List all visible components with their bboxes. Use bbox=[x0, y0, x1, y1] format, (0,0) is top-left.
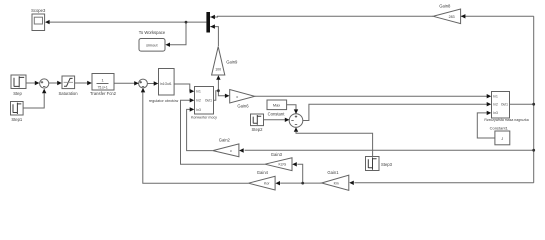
wire saturation to transferfcn bbox=[75, 82, 88, 84]
arrow into konwerter in1 bbox=[190, 89, 195, 93]
gain Gain1 Kin bbox=[322, 175, 349, 190]
arrow into sum2 left bbox=[134, 81, 139, 85]
svg-text:Gain2: Gain2 bbox=[219, 138, 231, 143]
arrow into sum1 left bbox=[35, 81, 40, 85]
constant Max bbox=[267, 100, 287, 110]
wire gain8 input from right bbox=[461, 15, 534, 17]
wire max constant to circle top bbox=[287, 105, 296, 110]
gain Gain3 bbox=[265, 158, 292, 171]
svg-text:283: 283 bbox=[449, 15, 455, 19]
wire circle out to In2 bbox=[303, 104, 488, 120]
wire mux input2 from gain9 bbox=[210, 27, 218, 47]
wire konwerter out1 bracket bbox=[214, 91, 219, 101]
svg-text:Gain6: Gain6 bbox=[237, 103, 249, 108]
svg-text:Step3: Step3 bbox=[381, 162, 393, 167]
svg-text:Gain8: Gain8 bbox=[439, 4, 451, 9]
svg-text:K2/G: K2/G bbox=[279, 163, 287, 167]
svg-text:c: c bbox=[236, 95, 238, 99]
junction dot y150 tee bbox=[532, 149, 535, 152]
wire branch up to gain3 bbox=[297, 164, 302, 183]
arrow into gain8 bbox=[461, 14, 466, 18]
arrow into regulator bbox=[154, 81, 159, 85]
arrow into gain3 bbox=[292, 162, 297, 166]
svg-text:Out1: Out1 bbox=[501, 103, 508, 107]
svg-text:Gain9: Gain9 bbox=[226, 60, 238, 65]
svg-text:simout: simout bbox=[146, 42, 158, 47]
wire gain6 out long to In1 bbox=[255, 95, 488, 97]
transfer fcn fraction bar bbox=[97, 82, 109, 84]
gain Gain9 bbox=[212, 47, 225, 75]
sum sum1 bbox=[40, 79, 49, 88]
step icon Step bbox=[14, 76, 24, 87]
gain Gain8 bbox=[433, 9, 460, 24]
svg-text:In1Out1: In1Out1 bbox=[160, 82, 172, 86]
svg-text:c: c bbox=[230, 149, 232, 153]
svg-text:Gain1: Gain1 bbox=[327, 170, 339, 175]
svg-text:Step2: Step2 bbox=[252, 127, 264, 132]
transfer-fcn Transfer Fcn2 bbox=[92, 74, 114, 91]
sum1 signs bbox=[41, 81, 46, 86]
junction dot workspace branch bbox=[185, 21, 188, 24]
arrow into konwerter in3 bbox=[190, 107, 195, 111]
junction dot gain3 branch bbox=[301, 182, 304, 185]
subsystem regulator obrotow bbox=[159, 69, 175, 96]
wire regulator out to konwerter in1 bbox=[174, 84, 190, 91]
svg-text:In3: In3 bbox=[493, 111, 498, 115]
svg-text:J: J bbox=[501, 136, 503, 141]
step icon Step2 bbox=[253, 115, 261, 125]
svg-text:Transfer Fcn2: Transfer Fcn2 bbox=[90, 91, 117, 96]
svg-text:Rzeczywista masa nagruzka: Rzeczywista masa nagruzka bbox=[484, 118, 528, 122]
arrow into saturation bbox=[57, 81, 62, 85]
arrow into gain6 bbox=[225, 94, 230, 98]
svg-text:Step: Step bbox=[13, 91, 22, 96]
gain Gain2 bbox=[213, 144, 239, 157]
saturation Saturation bbox=[62, 76, 75, 89]
gain Gain4 bbox=[248, 176, 275, 190]
arrow into sum2 bottom bbox=[141, 88, 145, 93]
step icon Step1 bbox=[13, 103, 21, 114]
svg-text:Saturation: Saturation bbox=[58, 91, 78, 96]
svg-text:Scope3: Scope3 bbox=[31, 8, 46, 13]
arrow into sum3 left bbox=[285, 118, 290, 122]
arrow into sum3 bottom bbox=[294, 127, 298, 132]
wire transferfcn to sum2 bbox=[114, 82, 135, 84]
wire step2 to circle left bbox=[264, 119, 286, 121]
wire to-workspace branch bbox=[169, 22, 186, 45]
wire feedback y150 to gain2 bbox=[245, 149, 534, 151]
sum2 signs bbox=[140, 81, 145, 86]
scope Scope3 bbox=[32, 14, 45, 31]
svg-text:In2: In2 bbox=[196, 99, 201, 103]
constant Constant1 bbox=[495, 131, 510, 145]
wire step3 to circle bottom bbox=[296, 132, 373, 157]
svg-text:To Workspace: To Workspace bbox=[139, 30, 166, 35]
arrow into sum1 bottom bbox=[42, 89, 46, 94]
step icon Step3 bbox=[368, 157, 376, 169]
svg-text:Kor: Kor bbox=[264, 182, 270, 186]
junction dot gain9 branch bbox=[217, 89, 220, 92]
wire block out1 to vertical bbox=[510, 103, 534, 105]
saturation icon axis bbox=[64, 81, 73, 83]
svg-text:In3: In3 bbox=[196, 108, 201, 112]
wire top long line to mux input1 bbox=[210, 15, 433, 18]
sum big sum3 bbox=[289, 114, 303, 128]
arrow into gain2 bbox=[239, 148, 244, 152]
wire sum2 to regulator bbox=[147, 83, 154, 85]
mux Mux1 bbox=[206, 12, 210, 33]
step Step bbox=[11, 75, 26, 89]
svg-text:Step1: Step1 bbox=[11, 117, 23, 122]
wire gain9 feed vertical bbox=[218, 79, 225, 96]
arrow into gain1 bbox=[349, 181, 354, 185]
arrow mux in1 bbox=[210, 15, 215, 19]
wire gain1 out to gain4 bbox=[280, 182, 321, 184]
subsystem Rzeczywista masa bbox=[492, 92, 510, 119]
svg-text:regulator obrotów: regulator obrotów bbox=[149, 99, 179, 103]
saturation icon bbox=[64, 78, 73, 86]
svg-text:In1: In1 bbox=[196, 90, 201, 94]
step Step3 bbox=[366, 157, 380, 171]
svg-text:Gain4: Gain4 bbox=[257, 170, 269, 175]
arrow into scope bbox=[45, 20, 50, 24]
arrow into gain4 bbox=[275, 181, 280, 185]
svg-text:Constant1: Constant1 bbox=[490, 125, 509, 130]
wire gain3 out to konwerter in2 bbox=[181, 100, 265, 164]
step Step1 bbox=[11, 102, 24, 116]
arrow into block in3 bbox=[487, 111, 492, 115]
wire sum1 to saturation bbox=[49, 82, 58, 84]
subsystem Konwerter bbox=[195, 87, 214, 115]
junction dot out1 tee bbox=[532, 103, 535, 106]
arrow into konwerter in2 bbox=[190, 98, 195, 102]
wire gain4 out to sum2 bottom bbox=[143, 92, 249, 183]
wire scope line bbox=[49, 21, 206, 23]
gain Gain6 bbox=[230, 90, 255, 104]
svg-text:Constant: Constant bbox=[268, 112, 286, 117]
arrow into sum3 top bbox=[294, 109, 298, 114]
to-workspace simout bbox=[139, 39, 165, 52]
svg-text:In1: In1 bbox=[493, 94, 498, 98]
wire step1 to sum1 bottom bbox=[23, 93, 44, 108]
svg-text:Konwerter mocy: Konwerter mocy bbox=[191, 115, 217, 119]
sum sum2 bbox=[139, 79, 148, 88]
sum3 signs bbox=[291, 115, 297, 124]
wire feedback y183 to gain1 bbox=[354, 182, 533, 184]
wire constant1 J to In3 bbox=[477, 113, 495, 138]
svg-text:Gain3: Gain3 bbox=[271, 152, 283, 157]
svg-text:Max: Max bbox=[273, 103, 280, 108]
wire right vertical feedback bbox=[533, 16, 535, 183]
svg-text:75.s+1: 75.s+1 bbox=[97, 86, 107, 90]
svg-text:Kin: Kin bbox=[334, 181, 339, 185]
svg-text:In2: In2 bbox=[493, 103, 498, 107]
arrow into gain9 bbox=[216, 75, 220, 80]
arrow mux in2 bbox=[210, 24, 215, 28]
wire step to sum1 bbox=[26, 82, 36, 84]
arrow into block in2 bbox=[487, 102, 492, 106]
svg-text:100: 100 bbox=[215, 68, 221, 72]
arrow into block in1 bbox=[487, 94, 492, 98]
arrow into simout bbox=[165, 43, 170, 47]
step Step2 bbox=[251, 114, 264, 126]
svg-text:Out1: Out1 bbox=[205, 99, 212, 103]
arrow into transferfcn bbox=[87, 81, 92, 85]
wire gain2 out to konwerter in3 bbox=[187, 109, 213, 150]
